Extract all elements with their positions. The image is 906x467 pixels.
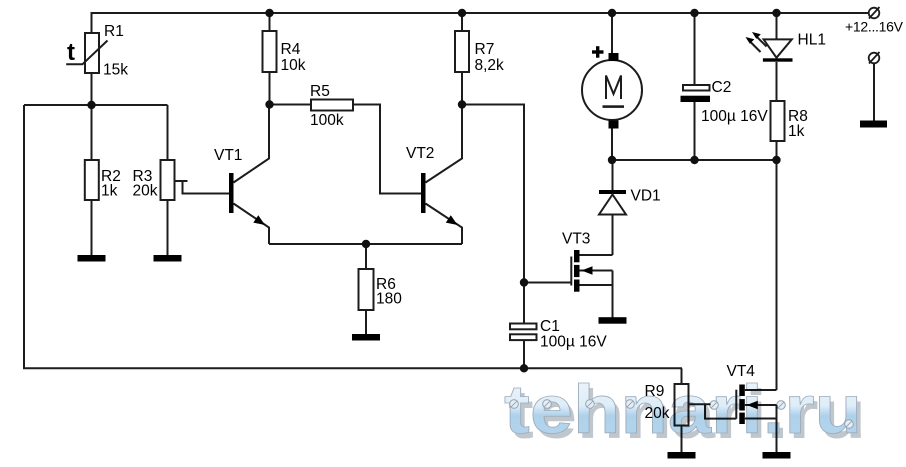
wire top supply rail [92, 12, 869, 14]
resistor R4 [263, 31, 306, 74]
wire R4 bottom [269, 72, 271, 105]
ground VT3 [599, 317, 627, 324]
svg-text:tehnari.ru: tehnari.ru [504, 371, 862, 448]
wire VT4 body lead [745, 404, 777, 406]
wire R7 top [461, 12, 463, 31]
svg-text:C1: C1 [540, 318, 560, 335]
wire node row y105 [24, 104, 168, 106]
node R4/R5/VT1 collector junction [265, 100, 273, 108]
svg-text:R5: R5 [310, 83, 330, 100]
terminal +12...16V [845, 7, 904, 35]
svg-text:VD1: VD1 [631, 188, 661, 205]
node motor/VD1 junction [608, 156, 616, 164]
node R8/VT4 drain junction [772, 156, 780, 164]
node C2 bottom junction [690, 156, 698, 164]
svg-text:180: 180 [376, 291, 402, 308]
wire VT3 source lead [580, 284, 613, 286]
MOSFET VT3 [562, 231, 593, 292]
wire R2 bottom [91, 200, 93, 256]
svg-text:R4: R4 [281, 41, 301, 58]
resistor R1 thermistor [66, 23, 128, 79]
svg-text:R1: R1 [104, 23, 124, 40]
ground VT4 [763, 452, 791, 459]
wire HL1 top [776, 12, 778, 40]
capacitor C2 [681, 79, 769, 125]
wire R9 top [681, 368, 683, 384]
ground R6 [352, 334, 380, 341]
resistor R6 [359, 269, 403, 310]
resistor R5 [310, 83, 353, 129]
node HL1 top rail junction [772, 9, 780, 17]
node motor top rail junction [608, 9, 616, 17]
watermark tehnari.ru [504, 371, 866, 453]
wire R6 bottom [365, 310, 367, 334]
svg-text:10k: 10k [281, 57, 306, 74]
wire VT1 emitter [234, 204, 270, 245]
wire VD1 top [612, 160, 614, 190]
svg-text:8,2k: 8,2k [475, 57, 505, 74]
capacitor C1 [510, 318, 607, 351]
wire VT4 source lead [745, 418, 777, 420]
wire R3 bottom [167, 200, 169, 256]
wire R5 left [270, 104, 312, 106]
wire R1 bottom to node [91, 72, 93, 105]
wire VT3 body lead [580, 270, 613, 272]
ground R9 [668, 452, 696, 459]
node C1/VT3 gate junction [520, 278, 528, 286]
wire VT3 drain lead [580, 254, 613, 256]
wire terminal 2 to ground [873, 64, 875, 121]
svg-text:1k: 1k [101, 183, 118, 200]
svg-text:VT2: VT2 [406, 145, 434, 162]
wire C2 bottom [694, 102, 696, 160]
wire C2 top [694, 12, 696, 85]
node C1 bottom rail junction [520, 364, 528, 372]
svg-text:VT3: VT3 [562, 231, 590, 248]
wire emitter rail [269, 243, 462, 245]
terminal minus [869, 52, 880, 64]
wire node R7 to C1 column [462, 105, 524, 324]
svg-text:15k: 15k [103, 62, 128, 79]
LED HL1 [746, 32, 826, 62]
resistor R8 [771, 101, 808, 141]
wire R8 bottom [776, 141, 778, 160]
wire R1 top [91, 12, 93, 33]
wire R6 top [365, 244, 367, 269]
transistor VT1 [214, 147, 265, 225]
wire VT2 collector [426, 105, 463, 183]
resistor R7 [455, 31, 504, 74]
ground R3 [154, 255, 182, 262]
node R7 top rail junction [458, 9, 466, 17]
node C2 top rail junction [690, 9, 698, 17]
wire motor bottom rail y160 [612, 159, 777, 161]
ground R2 [78, 255, 106, 262]
svg-text:C2: C2 [712, 79, 732, 96]
wire VT4 drain lead [745, 389, 777, 391]
wire C1 bottom [523, 340, 525, 369]
node emitter rail R6 junction [362, 240, 370, 248]
wire VT3 source to ground [612, 271, 614, 319]
node R4 top rail junction [265, 9, 273, 17]
wire VT4 source to ground [776, 405, 778, 453]
wire R3 top [167, 105, 169, 160]
svg-text:100µ 16V: 100µ 16V [701, 108, 768, 125]
wire HL1 to R8 [776, 62, 778, 101]
svg-text:100k: 100k [310, 112, 344, 129]
resistor R2 [85, 160, 121, 200]
wire VD1 bottom to VT3 drain [612, 215, 614, 256]
wire R3 wiper lead [175, 180, 188, 182]
MOSFET VT4 [727, 363, 758, 424]
svg-text:20k: 20k [133, 183, 158, 200]
resistor R3 trimmer [133, 160, 175, 200]
node R7/VT2 collector junction [458, 100, 466, 108]
svg-text:+12...16V: +12...16V [845, 19, 904, 35]
wire R8 node down to VT4 drain [776, 160, 778, 390]
diode VD1 [599, 188, 661, 215]
wire R2 top [91, 105, 93, 160]
transistor VT2 [406, 145, 458, 225]
wire VT3 gate lead [524, 282, 571, 284]
svg-text:VT1: VT1 [214, 147, 242, 164]
ground terminal [860, 121, 887, 128]
node R1/R2 junction [87, 101, 95, 109]
wire VT1 collector [234, 105, 270, 183]
wire R9 bottom [681, 426, 683, 454]
wire R7 bottom [461, 72, 463, 105]
wire R4 top [269, 12, 271, 31]
svg-text:HL1: HL1 [798, 32, 826, 49]
wire R3 wiper elbow [183, 181, 230, 194]
svg-text:t: t [67, 39, 75, 66]
wire R9 wiper lead [689, 403, 711, 405]
wire motor bottom [611, 128, 613, 160]
motor M1 [582, 46, 642, 128]
resistor R9 trimmer [645, 383, 689, 426]
svg-text:R7: R7 [475, 41, 495, 58]
wire R5 right to VT2 base [353, 105, 421, 194]
svg-text:100µ 16V: 100µ 16V [540, 334, 607, 351]
wire left feedback loop [24, 105, 682, 368]
svg-text:1k: 1k [788, 123, 805, 140]
wire R9 wiper to VT4 gate [705, 404, 736, 418]
wire motor top [611, 12, 613, 53]
wire VT2 emitter [426, 204, 463, 245]
